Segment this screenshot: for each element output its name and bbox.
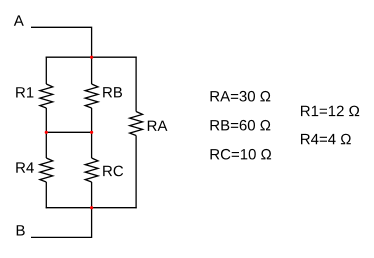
label RC bbox=[103, 166, 123, 177]
label R4 bbox=[16, 162, 34, 172]
junction middle node left bbox=[45, 131, 48, 134]
wire RA top lead bbox=[135, 57, 137, 112]
value label RA=30 bbox=[211, 91, 271, 102]
wire from bottom node to terminal B bbox=[31, 208, 92, 238]
junction middle node center bbox=[90, 131, 93, 134]
wire RA bottom lead bbox=[135, 136, 137, 209]
label RA bbox=[148, 121, 168, 131]
value label RB=60 bbox=[211, 120, 271, 131]
wire middle node horizontal bbox=[46, 131, 91, 133]
wire R4 bottom lead bbox=[45, 182, 47, 208]
wire RC top lead bbox=[91, 132, 93, 158]
wire RB top lead bbox=[91, 57, 93, 84]
junction top node bbox=[90, 56, 93, 59]
resistor R1 bbox=[40, 84, 53, 108]
label RB bbox=[103, 87, 122, 97]
resistor R4 bbox=[40, 158, 53, 182]
value label RC=10 bbox=[211, 149, 272, 160]
resistor RA bbox=[130, 112, 143, 136]
node B label bbox=[17, 225, 25, 235]
wire R4 top lead bbox=[45, 132, 47, 158]
wire RB bottom lead bbox=[91, 108, 93, 132]
value label R1=12 bbox=[301, 106, 359, 117]
wire R1 top lead bbox=[45, 57, 47, 84]
resistor RC bbox=[85, 158, 98, 182]
wire top node horizontal bbox=[46, 56, 137, 58]
junction bottom node bbox=[90, 206, 93, 209]
resistor RB bbox=[85, 84, 98, 108]
wire bottom node horizontal bbox=[46, 207, 137, 209]
wire RC bottom lead bbox=[91, 182, 93, 208]
label R1 bbox=[16, 87, 33, 97]
wire from terminal A to top node bbox=[31, 27, 92, 57]
value label R4=4 bbox=[301, 134, 351, 145]
wire R1 bottom lead bbox=[45, 108, 47, 132]
node A label bbox=[14, 15, 24, 25]
